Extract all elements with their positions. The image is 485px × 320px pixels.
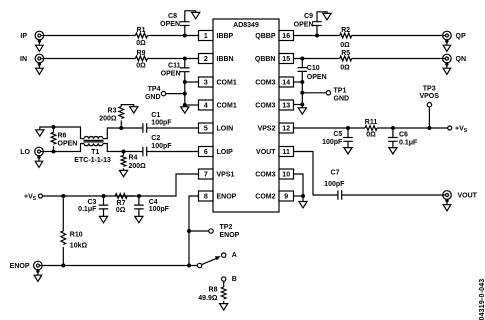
connector IN xyxy=(35,54,44,63)
wire pin15 to C10 xyxy=(301,59,303,68)
svg-text:2: 2 xyxy=(204,56,208,63)
svg-text:8: 8 xyxy=(204,193,208,200)
junction TP1 rail xyxy=(300,91,304,95)
svg-text:T1: T1 xyxy=(91,149,99,156)
wire TP4 to rail xyxy=(166,93,185,95)
capacitor C8 xyxy=(180,22,190,26)
svg-text:VPS1: VPS1 xyxy=(217,172,235,179)
ground COM2 xyxy=(299,202,307,208)
wire +VS rail xyxy=(42,195,135,197)
wire C7 to VOUT xyxy=(342,194,446,196)
wire R6 top to ground xyxy=(40,127,54,130)
wire C10 to pin13 rail xyxy=(301,71,303,107)
junction pin3 xyxy=(183,80,187,84)
wire node to C1 xyxy=(121,127,143,129)
terminal +VS right xyxy=(448,126,452,130)
svg-text:R10: R10 xyxy=(70,231,83,238)
svg-text:0Ω: 0Ω xyxy=(340,42,350,49)
wire C6 top lead xyxy=(392,128,394,138)
capacitor C5 xyxy=(343,138,353,142)
wire R3 top to ground xyxy=(121,105,134,107)
pin 12 box xyxy=(279,123,294,133)
svg-text:OPEN: OPEN xyxy=(161,70,181,77)
IC U1 AD8349 body xyxy=(213,19,279,212)
wire pin2 to C11 xyxy=(184,59,186,68)
svg-text:0Ω: 0Ω xyxy=(116,207,126,214)
connector QN xyxy=(443,54,452,63)
test point TP4 xyxy=(161,91,165,95)
svg-text:10: 10 xyxy=(282,171,290,178)
svg-text:0Ω: 0Ω xyxy=(136,63,146,70)
svg-text:R4: R4 xyxy=(129,154,138,161)
svg-text:0Ω: 0Ω xyxy=(340,65,350,72)
wire T1 primary bottom lead xyxy=(54,144,85,152)
svg-text:TP2: TP2 xyxy=(220,224,233,231)
pin 16 box xyxy=(279,31,294,41)
transformer T1 xyxy=(84,136,103,138)
pin 7 box xyxy=(199,169,214,179)
test point TP2 xyxy=(209,229,213,233)
resistor R9 xyxy=(135,56,147,61)
svg-text:3: 3 xyxy=(204,79,208,86)
wire C3 to ground xyxy=(103,209,105,217)
svg-text:0Ω: 0Ω xyxy=(366,131,376,138)
svg-text:VOUT: VOUT xyxy=(458,193,478,200)
svg-text:C5: C5 xyxy=(333,131,342,138)
junction pin2/C11 xyxy=(183,57,187,61)
svg-text:TP1: TP1 xyxy=(334,87,347,94)
svg-text:ENOP: ENOP xyxy=(10,263,30,270)
capacitor C11 xyxy=(180,68,190,72)
svg-text:COM2: COM2 xyxy=(255,194,275,201)
svg-text:C8: C8 xyxy=(168,13,177,20)
pin 8 box xyxy=(199,191,214,201)
ground C4 xyxy=(135,216,143,222)
capacitor C4 xyxy=(134,205,144,209)
switch S1 arm xyxy=(202,258,217,264)
svg-text:LOIN: LOIN xyxy=(217,126,234,133)
svg-text:C10: C10 xyxy=(307,65,320,72)
svg-text:QP: QP xyxy=(456,33,466,40)
wire C4 to ground xyxy=(138,209,140,217)
ground R4 xyxy=(119,170,127,176)
wire pin10 stub xyxy=(294,174,304,196)
wire R10 top lead xyxy=(62,196,64,231)
svg-text:VPOS: VPOS xyxy=(419,93,439,100)
wire C8 lower lead xyxy=(184,26,186,36)
capacitor C3 xyxy=(99,205,109,209)
resistor R2 xyxy=(340,33,352,38)
capacitor C1 xyxy=(143,123,147,133)
wire ENOP line xyxy=(39,265,197,267)
ground COM1 rail xyxy=(181,107,189,113)
wire R1 to pin1 xyxy=(147,35,198,37)
svg-text:15: 15 xyxy=(282,56,290,63)
wire T1 secondary bottom lead xyxy=(103,144,124,152)
svg-text:49.9Ω: 49.9Ω xyxy=(198,295,218,302)
svg-text:100pF: 100pF xyxy=(149,206,170,213)
svg-text:R9: R9 xyxy=(137,50,146,57)
svg-text:0.1μF: 0.1μF xyxy=(78,206,97,213)
junction C6 xyxy=(391,126,395,130)
svg-text:OPEN: OPEN xyxy=(307,74,327,81)
wire R5 to QN xyxy=(352,58,446,60)
svg-text:04319-0-043: 04319-0-043 xyxy=(479,279,485,320)
wire C6 to ground xyxy=(392,141,394,147)
svg-text:IBBP: IBBP xyxy=(217,33,234,40)
pin 6 box xyxy=(199,147,214,157)
resistor R8 xyxy=(221,287,226,299)
wire pin8 stub down xyxy=(189,196,199,266)
capacitor C10 xyxy=(298,68,308,72)
svg-text:COM3: COM3 xyxy=(255,172,275,179)
ground C3 xyxy=(99,216,107,222)
wire pin15 to R5 xyxy=(294,58,340,60)
svg-text:C4: C4 xyxy=(149,199,158,206)
svg-text:100pF: 100pF xyxy=(322,139,343,146)
junction R10 top xyxy=(61,194,65,198)
junction TP4 rail xyxy=(183,92,187,96)
junction pin4 xyxy=(183,103,187,107)
svg-text:200Ω: 200Ω xyxy=(129,163,147,170)
wire B to R8 xyxy=(223,281,225,287)
svg-text:100pF: 100pF xyxy=(324,181,345,188)
svg-text:14: 14 xyxy=(282,79,290,86)
junction R4/LOIP xyxy=(122,150,126,154)
junction pin13 xyxy=(300,103,304,107)
svg-text:13: 13 xyxy=(282,102,290,109)
pin 2 box xyxy=(199,54,214,64)
ground R8 xyxy=(220,304,228,310)
svg-text:VOUT: VOUT xyxy=(256,149,276,156)
junction pin8/ENOP line xyxy=(187,264,191,268)
svg-text:100pF: 100pF xyxy=(151,143,172,150)
junction R3/LOIN xyxy=(119,126,123,130)
svg-text:11: 11 xyxy=(282,149,290,156)
svg-text:ETC-1-1-13: ETC-1-1-13 xyxy=(74,157,111,164)
svg-text:VPS2: VPS2 xyxy=(258,126,276,133)
svg-text:C1: C1 xyxy=(151,112,160,119)
resistor R10 xyxy=(61,231,66,245)
switch terminal A xyxy=(222,253,226,257)
pin 1 box xyxy=(199,31,214,41)
junction C3 xyxy=(102,194,106,198)
wire LO to node xyxy=(41,151,54,153)
pin 11 box xyxy=(279,147,294,157)
svg-text:OPEN: OPEN xyxy=(294,21,314,28)
svg-text:A: A xyxy=(232,252,237,259)
wire pin12 to R11 xyxy=(294,127,366,129)
pin 15 box xyxy=(279,54,294,64)
svg-text:9: 9 xyxy=(284,193,288,200)
wire C8 to ground xyxy=(185,11,196,22)
switch S1 pole xyxy=(197,263,201,267)
ground R3 xyxy=(130,107,138,113)
svg-text:10kΩ: 10kΩ xyxy=(70,242,88,249)
svg-text:0Ω: 0Ω xyxy=(136,40,146,47)
connector ENOP xyxy=(34,261,43,270)
svg-text:COM3: COM3 xyxy=(255,80,275,87)
pin 4 box xyxy=(199,100,214,110)
svg-text:R6: R6 xyxy=(58,133,67,140)
pin 9 box xyxy=(279,191,294,201)
svg-text:12: 12 xyxy=(282,125,290,132)
pin 13 box xyxy=(279,100,294,110)
junction TP2 xyxy=(187,229,191,233)
wire C3 top lead xyxy=(103,196,105,205)
svg-text:4: 4 xyxy=(204,102,208,109)
svg-text:COM3: COM3 xyxy=(255,103,275,110)
svg-text:R11: R11 xyxy=(365,119,378,126)
svg-text:LO: LO xyxy=(20,149,30,156)
wire C11 to pin4 ground rail xyxy=(184,72,186,107)
resistor R4 xyxy=(121,155,126,166)
svg-text:GND: GND xyxy=(334,96,350,103)
resistor R3 xyxy=(119,107,124,119)
wire pin11 to C7 xyxy=(294,152,338,196)
svg-text:OPEN: OPEN xyxy=(58,141,78,148)
junction R10 bottom xyxy=(61,264,65,268)
wire pin13 stub xyxy=(294,104,303,106)
capacitor C2 xyxy=(143,147,147,157)
wire R6 bottom lead xyxy=(53,146,55,151)
svg-text:COM1: COM1 xyxy=(217,103,237,110)
wire IN to R9 xyxy=(41,58,135,60)
svg-text:ENOP: ENOP xyxy=(217,194,237,201)
connector IP xyxy=(35,31,44,40)
wire pin16 to R2 xyxy=(294,35,340,37)
svg-text:100pF: 100pF xyxy=(151,120,172,127)
connector QP xyxy=(443,31,452,40)
svg-text:R2: R2 xyxy=(341,27,350,34)
svg-text:QBBP: QBBP xyxy=(255,33,276,40)
junction C4 xyxy=(137,194,141,198)
svg-text:QBBN: QBBN xyxy=(255,56,276,63)
wire R9 to pin2 xyxy=(147,58,198,60)
svg-text:7: 7 xyxy=(204,171,208,178)
svg-text:C7: C7 xyxy=(331,170,340,177)
wire R4 top lead xyxy=(123,152,125,156)
svg-text:R7: R7 xyxy=(117,200,126,207)
svg-text:200Ω: 200Ω xyxy=(99,115,117,122)
svg-text:R1: R1 xyxy=(137,27,146,34)
capacitor C9 xyxy=(312,22,322,26)
svg-text:IN: IN xyxy=(20,56,27,63)
svg-text:C11: C11 xyxy=(168,63,181,70)
wire R7 to VPS1 corner xyxy=(127,174,198,196)
ground C8 xyxy=(192,12,200,18)
wire C5 to ground xyxy=(347,141,349,147)
pin 5 box xyxy=(199,123,214,133)
pin 14 box xyxy=(279,77,294,87)
svg-text:6: 6 xyxy=(204,149,208,156)
wire IP to R1 xyxy=(41,35,135,37)
junction pin9 xyxy=(301,194,305,198)
svg-text:LOIP: LOIP xyxy=(217,149,234,156)
junction R6 top xyxy=(52,125,56,129)
svg-text:ENOP: ENOP xyxy=(220,232,240,239)
terminal +VS xyxy=(38,194,42,198)
junction pin16/C9 xyxy=(315,34,319,38)
junction TP3 xyxy=(427,126,431,130)
svg-text:OPEN: OPEN xyxy=(160,21,180,28)
junction pin15/C10 xyxy=(300,57,304,61)
svg-text:C6: C6 xyxy=(399,132,408,139)
svg-text:C2: C2 xyxy=(151,135,160,142)
wire C1 to pin5 xyxy=(147,127,199,129)
wire pin9 to ground xyxy=(302,196,304,202)
svg-text:R5: R5 xyxy=(341,50,350,57)
wire T1 secondary top lead xyxy=(103,128,121,139)
junction pin1/C8 xyxy=(183,34,187,38)
ground C9 xyxy=(323,13,331,19)
wire pin9 stub xyxy=(294,195,304,197)
wire R3 bottom lead xyxy=(120,121,122,129)
ground C6 xyxy=(389,148,397,154)
svg-text:COM1: COM1 xyxy=(217,80,237,87)
connector LO xyxy=(35,147,44,156)
wire C4 top lead xyxy=(138,196,140,205)
wire node to C2 xyxy=(124,151,143,153)
wire R4 bottom lead xyxy=(123,168,125,170)
wire R6 top lead xyxy=(53,127,55,132)
svg-text:TP3: TP3 xyxy=(423,85,436,92)
resistor R1 xyxy=(135,33,147,38)
wire C5 top lead xyxy=(347,128,349,138)
svg-text:GND: GND xyxy=(145,94,161,101)
wire R2 to QP xyxy=(352,35,446,37)
wire pin14 stub xyxy=(294,81,303,83)
ground C5 xyxy=(344,148,352,154)
svg-text:R3: R3 xyxy=(108,108,117,115)
svg-text:16: 16 xyxy=(282,33,290,40)
capacitor C6 xyxy=(388,138,398,142)
junction LO/R6/T1 xyxy=(52,150,56,154)
wire C2 to pin6 xyxy=(147,151,199,153)
test point TP3 xyxy=(427,103,431,107)
wire C9 lower lead xyxy=(316,26,318,36)
svg-text:5: 5 xyxy=(204,125,208,132)
svg-text:B: B xyxy=(232,276,237,283)
svg-text:IBBN: IBBN xyxy=(217,56,234,63)
wire TP2 stub xyxy=(189,230,209,232)
resistor R5 xyxy=(340,56,352,61)
wire R10 bottom lead xyxy=(62,247,64,266)
capacitor C7 xyxy=(338,190,342,200)
ground LO top xyxy=(36,130,44,136)
wire pin4 stub xyxy=(185,104,199,106)
svg-text:1: 1 xyxy=(204,33,208,40)
pin 3 box xyxy=(199,77,214,87)
svg-text:AD8349: AD8349 xyxy=(233,22,259,29)
svg-text:IP: IP xyxy=(20,33,27,40)
svg-text:C3: C3 xyxy=(87,199,96,206)
resistor R7 xyxy=(115,194,127,199)
wire T1 primary top lead xyxy=(54,127,85,139)
wire pin3 stub xyxy=(185,81,199,83)
pin 10 box xyxy=(279,169,294,179)
svg-text:R8: R8 xyxy=(209,287,218,294)
test point TP1 xyxy=(326,91,330,95)
ground COM3 rail xyxy=(298,108,306,114)
svg-text:C9: C9 xyxy=(304,13,313,20)
wire TP1 stub xyxy=(302,92,326,94)
resistor R6 xyxy=(51,132,56,144)
wire C9 to ground xyxy=(317,12,327,22)
junction C5 xyxy=(346,126,350,130)
switch terminal B xyxy=(222,277,226,281)
svg-text:TP4: TP4 xyxy=(148,86,161,93)
resistor R11 xyxy=(365,126,377,131)
junction pin14 xyxy=(300,80,304,84)
wire R11 to +VS xyxy=(377,127,448,129)
svg-text:QN: QN xyxy=(456,56,467,63)
connector VOUT xyxy=(443,191,452,200)
svg-text:0.1μF: 0.1μF xyxy=(399,139,418,146)
wire R8 to ground xyxy=(223,301,225,304)
wire TP3 stub xyxy=(428,107,430,128)
